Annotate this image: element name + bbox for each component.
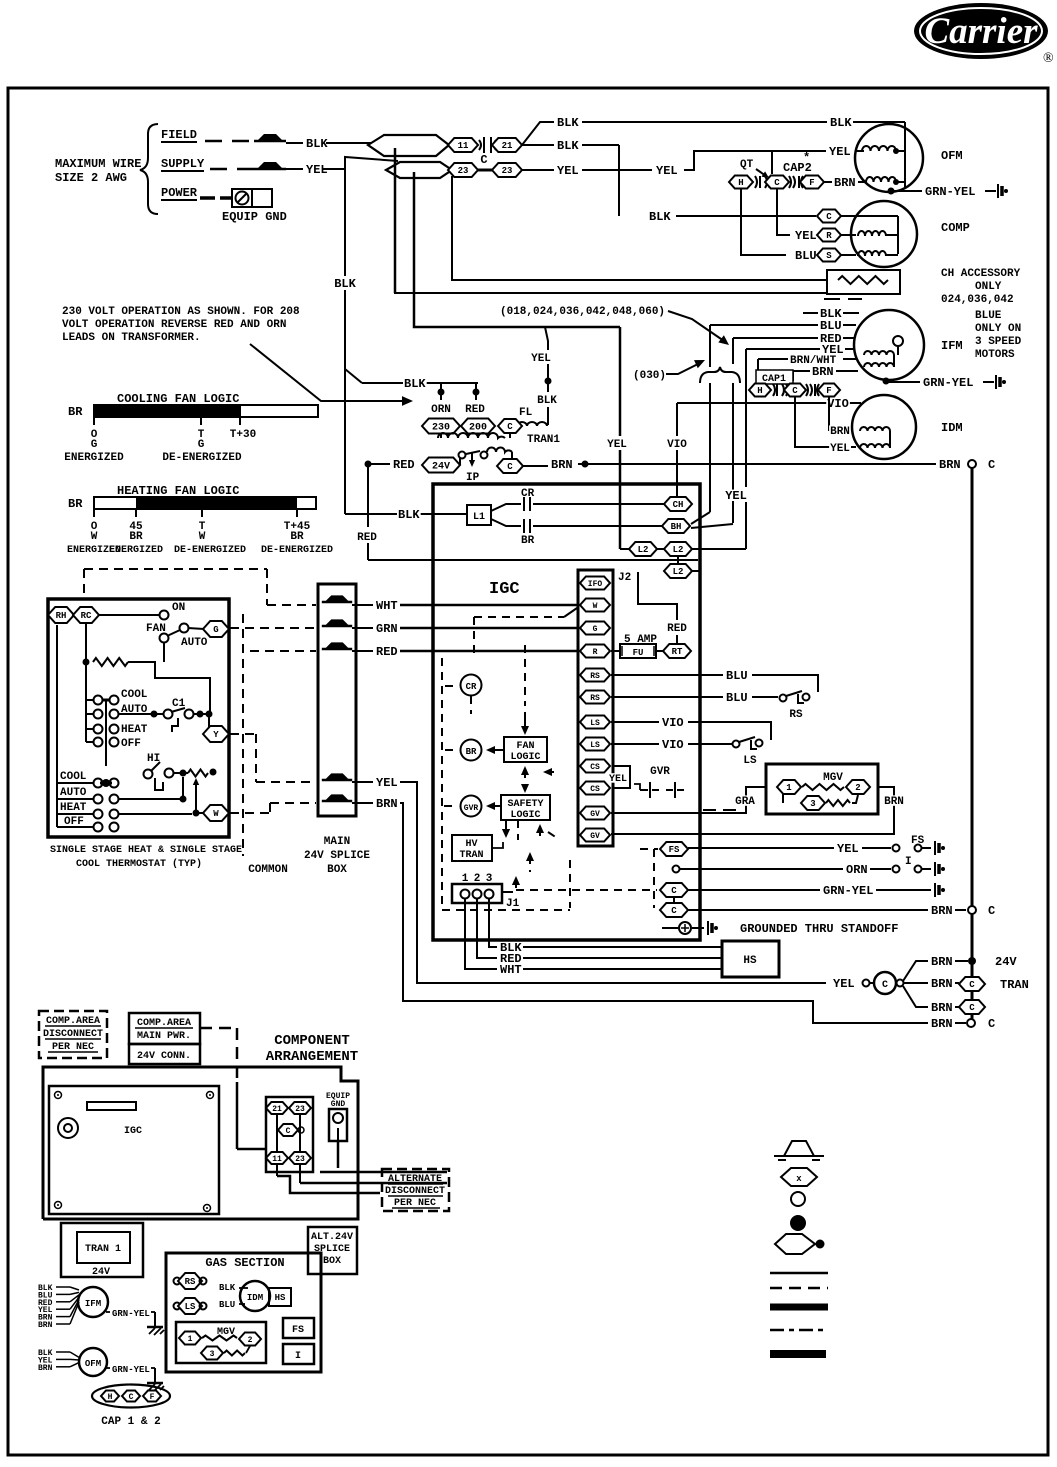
wire lower horizontal to CH box [395,157,827,293]
wire RED to RT [676,635,678,644]
wire BLU IFM [710,324,856,326]
main 24v splice box [318,584,356,816]
svg-text:BH: BH [671,522,682,532]
wire BLK field [286,142,303,144]
svg-text:BLK: BLK [557,116,579,130]
board standoff circle [58,1118,78,1138]
wire 24v conn drop [237,1082,266,1149]
wire H drop to S row [741,189,786,255]
svg-text:BLK: BLK [649,210,671,224]
svg-text:TRAN1: TRAN1 [527,434,560,446]
node C1 right pair [193,711,213,718]
svg-text:R: R [593,648,598,657]
svg-text:2: 2 [248,1336,253,1345]
wire GV lower to MGV [611,787,894,834]
wire supply vertical 414 [414,172,620,327]
wire dash power [200,196,215,200]
svg-text:C: C [969,980,975,990]
wire BRN fan lower [903,986,959,1007]
wire BRN fan mid [904,982,959,984]
dashed drop FS [653,849,655,908]
wire YEL FS row [688,847,891,849]
relay L1 box [467,505,491,525]
logic block FAN LOGIC [504,737,547,763]
selector rows lower [57,625,119,832]
label MAXIMUM WIRE SIZE 2 AWG [55,157,141,185]
svg-text:BR: BR [129,531,143,543]
wire GRN from splice [352,627,579,629]
wire resistor to C1 riser [128,662,210,712]
node heater right [210,769,217,776]
node C open circle right [968,460,976,468]
svg-text:BRN: BRN [931,955,953,969]
svg-text:YEL: YEL [376,776,398,790]
svg-text:23: 23 [458,166,469,176]
label BLK L1 [397,509,421,520]
terminal L2 lower [664,564,692,578]
wire equip gnd drop [337,1141,340,1168]
terminal BH [662,519,690,533]
svg-text:RS: RS [789,709,803,721]
ground FS [934,841,936,855]
dashed box internals [442,658,570,910]
svg-text:COMPONENT: COMPONENT [274,1033,350,1049]
svg-text:G: G [593,625,598,634]
wire YEL from splice [352,782,826,983]
terminal 23 right [492,163,522,177]
heating fan logic bar [94,497,316,509]
svg-text:S: S [826,251,832,261]
breaker wires [277,1114,300,1152]
wire RC to fan switch [99,614,159,616]
svg-text:BR: BR [68,405,83,419]
box COMP.AREA DISCONNECT PER NEC [39,1011,107,1058]
terminal W thermostat [203,805,229,821]
svg-text:FU: FU [633,648,644,658]
svg-text:C1: C1 [172,698,186,710]
wire GV upper to MGV [611,787,766,813]
svg-text:BRN: BRN [38,1364,53,1373]
svg-text:200: 200 [469,423,487,434]
wire GRN-YEL row [688,889,931,891]
svg-text:*: * [803,151,810,165]
svg-text:IP: IP [466,472,480,484]
svg-text:OFM: OFM [941,149,963,163]
svg-text:L2: L2 [638,545,649,555]
label EQUIP GND arrangement [326,1092,350,1109]
svg-text:GND: GND [331,1100,346,1109]
wire BLK to IDM gas [239,1287,248,1289]
svg-text:FL: FL [519,407,533,419]
box ALTERNATE DISCONNECT PER NEC [382,1169,449,1211]
dashed arrow to fan logic [521,645,529,735]
wire heat row to W [118,810,204,817]
svg-text:IGC: IGC [124,1126,142,1137]
capacitor CAP1 terminal H [749,384,771,397]
wire J2 top to RT riser [638,572,677,620]
wire R to fuse [611,650,620,652]
wire L1 to CR capacitor [491,504,665,511]
terminal S comp [817,249,841,262]
wire between C terminals [673,896,675,904]
wire bundle 23 [386,162,452,178]
COMP winding lower [858,251,886,256]
motor OFM bottom [79,1348,107,1376]
switch LS gas [174,1298,207,1314]
svg-text:BRN: BRN [931,904,953,918]
selector rows upper [86,696,119,767]
svg-text:IFM: IFM [941,339,963,353]
svg-text:IDM: IDM [941,421,963,435]
board slot [87,1102,136,1110]
legend field wire dashed [770,1287,828,1290]
svg-text:VOLT OPERATION REVERSE RED AND: VOLT OPERATION REVERSE RED AND ORN [62,319,286,331]
svg-text:BOX: BOX [327,864,347,876]
label YEL on vertical 620 [606,438,628,448]
contact small right of C [897,980,904,987]
note pointer arrow [250,344,413,406]
svg-text:LOGIC: LOGIC [510,810,540,821]
svg-text:GRN: GRN [376,622,398,636]
svg-text:COOL: COOL [121,689,148,701]
terminal G thermostat [203,621,229,637]
motor IDM gas [240,1281,270,1311]
wire RC down to resistor node [85,623,87,662]
ground IFM [995,375,997,389]
wire CS bracket [612,766,630,788]
dashed wire RED splice [250,650,316,652]
resistor thermostat [93,658,128,666]
switch LS limit [733,737,763,749]
switch FAN blade [167,624,204,637]
legend dash dot wire [770,1329,828,1332]
terminal C brn [660,903,688,917]
terminal G [580,622,610,635]
terminal C tran1 primary [498,419,522,433]
terminal W [580,599,610,612]
svg-text:BLUE: BLUE [975,310,1002,322]
wire RED to BH [691,524,733,528]
ground IFM bottom [147,1312,164,1335]
svg-text:230: 230 [432,423,450,434]
wire GRN-YEL IFM [886,381,994,383]
wire fan auto drop [163,642,165,662]
wire RED to HS [523,957,722,959]
wire ORN row [680,868,891,870]
svg-text:C: C [507,462,513,472]
ground OFM [997,184,999,198]
svg-text:x: x [796,1174,802,1184]
terminal C comp [817,210,841,223]
svg-text:CR: CR [466,682,477,692]
svg-text:BLU: BLU [795,249,817,263]
legend thick wire 2 [770,1350,826,1358]
svg-text:BRN: BRN [551,458,573,472]
wire BRN from splice [352,803,928,1023]
terminal GV lower [580,829,610,842]
svg-text:ONLY: ONLY [975,281,1002,293]
label CAP1 box [756,370,793,385]
CH accessory box [827,270,900,294]
label YEL IFM [821,344,845,355]
Carrier logo [914,3,1054,66]
svg-text:24V CONN.: 24V CONN. [137,1051,191,1062]
svg-text:BLK: BLK [306,137,328,151]
wire YEL to L2 [620,548,629,550]
svg-text:IDM: IDM [247,1293,263,1303]
valve solenoid 3 gas [201,1347,223,1360]
wire J1 pin3 BLK [489,899,497,947]
cooling bar labels [64,429,256,464]
svg-text:GROUNDED THRU STANDOFF: GROUNDED THRU STANDOFF [740,922,898,936]
label VIO on vertical [666,438,688,448]
pointer arrow 030 [666,360,705,374]
breaker box [266,1097,313,1172]
capacitor CR [523,497,525,511]
svg-text:®: ® [1043,51,1054,66]
arrow up near J1 [512,876,520,892]
node C open circle mid [968,906,976,914]
switch FS contacts [893,845,932,852]
thermostat box [48,599,229,837]
label GRA [734,795,756,805]
svg-text:GVR: GVR [464,804,479,813]
wire J1 right stub [502,891,513,893]
capacitor CAP2 terminal H [729,176,753,189]
svg-text:ENERGIZED: ENERGIZED [109,545,163,556]
plug marks cap1 C-F [806,384,819,396]
terminal IFO [580,577,610,590]
heating bar labels [67,521,333,556]
label OFF lower [63,815,85,825]
resistor MGV upper [802,784,844,790]
svg-text:F: F [826,386,831,396]
switch FAN AUTO contact [160,634,169,643]
board screws [55,1092,214,1212]
svg-text:GRN-YEL: GRN-YEL [925,185,975,199]
wire into C circle [870,982,874,984]
svg-text:SAFETY: SAFETY [507,799,543,810]
label BRN IDM [829,425,851,435]
IFM speed tap circle [893,336,903,346]
terminal C tran upper [959,977,985,991]
terminal CS lower [580,782,610,795]
node ORN circle [673,866,680,873]
svg-text:BRN: BRN [884,796,904,808]
label YEL CS [608,773,628,783]
svg-text:FS: FS [669,845,680,855]
terminal C tran1 secondary [497,459,523,473]
arrow up lower one [526,852,534,872]
svg-text:DE-ENERGIZED: DE-ENERGIZED [162,452,242,464]
legend plug receptacle hexagon [775,1234,825,1254]
arrow fan logic to BR [486,746,503,754]
terminal L2 right [664,542,692,556]
svg-text:W: W [199,531,206,543]
label BLUE ONLY ON 3 SPEED MOTORS [975,310,1022,361]
svg-text:CH: CH [673,500,684,510]
svg-text:21: 21 [272,1105,282,1114]
svg-text:OFF: OFF [121,738,141,750]
node ORN tap [438,383,445,400]
wire WHT from splice [352,604,579,606]
wire BLK into L1 [345,513,467,515]
capacitor BR [523,519,525,533]
terminal Y thermostat [203,726,229,742]
dashed stub GVR left [444,805,458,807]
svg-text:C: C [480,153,487,167]
svg-text:MAIN: MAIN [324,836,350,848]
terminal 21 [492,138,522,152]
contact small left of C [863,980,870,987]
ground I [934,862,936,876]
dashed wire J1 to C terminal [516,889,657,891]
svg-text:LS: LS [743,755,757,767]
wire RED IFM [733,337,855,339]
legend splice symbol [774,1141,824,1160]
wire to Y terminal [208,714,210,727]
wire BLK to bundle 11 [326,142,372,144]
wire drop to cap2 C [771,151,773,174]
wire between 23 terminals [478,169,492,172]
svg-text:POWER: POWER [161,186,198,200]
switch HI [144,762,164,790]
label BRN MGV [883,795,905,805]
COMP winding upper [858,231,886,236]
svg-text:IFO: IFO [588,580,603,589]
dashed wire main pwr to unit [200,1028,237,1082]
box COMP.AREA MAIN PWR [129,1013,200,1044]
svg-text:J1: J1 [506,898,520,910]
svg-text:OFM: OFM [85,1359,101,1369]
valve MGV box [766,764,878,814]
splice GRN [325,619,350,626]
box 24V CONN [129,1044,200,1064]
brace for field supply power [140,124,158,214]
svg-text:3: 3 [810,799,815,809]
svg-text:I: I [295,1351,301,1362]
breaker terminal 21 [266,1102,288,1114]
terminal L2 left [629,542,657,556]
legend marked terminal dot [790,1215,806,1231]
svg-text:COOL THERMOSTAT (TYP): COOL THERMOSTAT (TYP) [76,858,202,870]
svg-text:C: C [507,422,513,432]
wire VIO vertical to CH [676,403,678,497]
capacitor CAP2 terminal C [765,176,789,189]
splice field [257,134,283,141]
wire dashes supply [210,168,254,171]
OFM internal wire [893,124,905,188]
motor C circle [874,972,896,994]
wire GRN-YEL IFM bottom [106,1309,155,1319]
transformer TRAN 1 assembly [61,1223,143,1278]
label YEL to C motor [832,978,856,989]
wire GRN-YEL OFM bottom [106,1365,155,1375]
svg-text:CS: CS [590,763,600,772]
label SUPPLY [161,157,205,171]
wire BLK IFM [803,312,859,314]
dashed stub FS left [640,848,658,850]
svg-text:DE-ENERGIZED: DE-ENERGIZED [261,545,333,556]
dashed stub BR left [445,749,459,751]
svg-text:LOGIC: LOGIC [510,752,540,763]
svg-text:G: G [91,439,98,451]
capacitor CAP1 terminal F [818,384,840,397]
svg-text:RT: RT [672,647,683,657]
capacitor GVR double [640,782,684,798]
wires breaker to alternate disconnect [277,1164,447,1193]
wire BLK bus left vertical [394,148,397,293]
valve MGV gas box [176,1322,266,1363]
switch HI right contact [165,769,174,778]
svg-text:G: G [198,439,205,451]
svg-text:C: C [988,1017,995,1031]
breaker terminal 11 [266,1152,288,1164]
svg-text:11: 11 [458,141,469,151]
svg-text:CS: CS [590,785,600,794]
svg-text:TRAN 1: TRAN 1 [85,1244,121,1255]
wire cap1 C to IDM YEL [795,397,820,447]
label HEAT lower [59,801,88,811]
terminal C grn-yel [660,883,688,897]
plug marks C-F [789,176,803,188]
dashes GRA left [703,809,736,811]
wire between L2 [657,548,664,550]
splice WHT [325,595,350,602]
svg-text:BR: BR [521,535,535,547]
label COOL lower [59,770,88,780]
legend unmarked terminal circle [791,1192,805,1206]
ground OFM bottom [147,1368,164,1391]
svg-text:T+30: T+30 [230,429,256,441]
svg-text:RED: RED [357,532,377,544]
svg-text:BRN: BRN [931,977,953,991]
valve solenoid 1 gas [179,1332,201,1345]
wire YEL vertical 620 [619,327,622,549]
svg-text:C: C [826,212,832,222]
terminal 23 left [448,163,478,177]
wire WHT to HS [523,968,722,970]
svg-text:BLK: BLK [219,1283,236,1293]
svg-text:YEL: YEL [837,842,859,856]
svg-text:OFF: OFF [64,816,84,828]
arrow left mid [543,768,556,776]
svg-text:F: F [150,1393,155,1402]
wire LS upper VIO [611,722,771,740]
svg-text:BLK: BLK [537,395,557,407]
label YEL at L2 riser [724,490,748,501]
IDM windings [860,427,890,448]
svg-text:L2: L2 [673,545,684,555]
motor OFM circle [855,124,923,192]
resistor heat anticipator [188,770,208,777]
wire 24V bus vertical [971,468,974,1019]
svg-text:H: H [108,1393,113,1402]
svg-text:ON: ON [172,602,185,614]
wire auto row to HI [118,777,187,803]
svg-text:BRN: BRN [812,365,834,379]
wire dashes field [205,140,249,143]
svg-text:CH ACCESSORY: CH ACCESSORY [941,268,1021,280]
ground standoff [707,921,709,935]
legend quick connect hexagon [781,1168,817,1186]
wire YEL IFM [746,348,855,350]
wire FL drop mid [547,364,549,378]
svg-text:LS: LS [185,1302,196,1312]
svg-text:SIZE 2 AWG: SIZE 2 AWG [55,171,127,185]
svg-text:RED: RED [465,404,485,416]
svg-text:GRN-YEL: GRN-YEL [923,376,973,390]
